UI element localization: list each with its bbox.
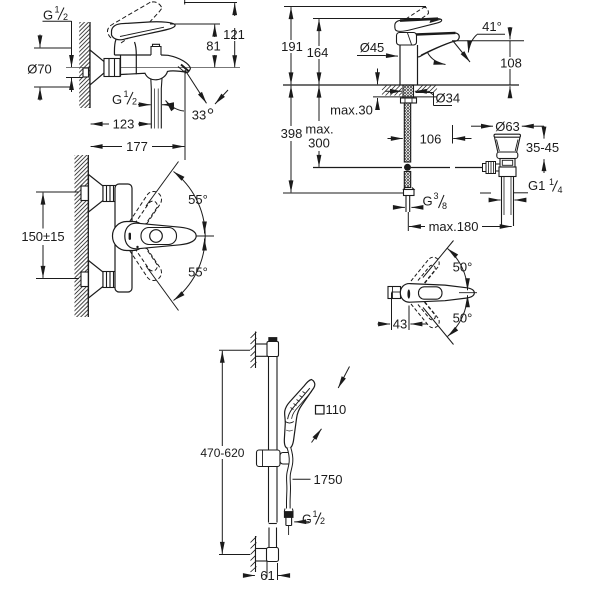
shield mark B <box>129 234 131 239</box>
svg-text:41°: 41° <box>482 19 502 34</box>
svg-text:G: G <box>43 8 53 23</box>
svg-text:61: 61 <box>260 568 274 583</box>
dim 470-620 <box>219 350 250 554</box>
dim max300 <box>318 86 320 167</box>
svg-text:123: 123 <box>113 117 135 132</box>
svg-text:164: 164 <box>307 45 329 60</box>
wall E bottom <box>251 536 257 572</box>
dim 106 <box>388 125 472 144</box>
dashed raised lever C <box>401 7 429 29</box>
svg-text:3: 3 <box>434 191 439 201</box>
svg-text:Ø63: Ø63 <box>495 119 520 134</box>
escutcheon A <box>90 50 106 85</box>
svg-text:177: 177 <box>126 139 148 154</box>
diverter knob A <box>151 44 161 55</box>
angle 33 annotation <box>166 70 229 111</box>
slider holder E <box>257 450 293 467</box>
dim Ø34 <box>385 91 452 105</box>
centerline through faucet A <box>66 67 240 69</box>
dim G1/2 E <box>302 509 325 526</box>
dim 164 <box>318 19 320 84</box>
lever D <box>400 284 474 303</box>
svg-text:110: 110 <box>326 402 347 417</box>
inlet pipe A <box>66 77 83 79</box>
hose fitting E <box>284 509 293 536</box>
lever raised (dashed) A <box>107 1 162 43</box>
svg-text:Ø70: Ø70 <box>27 61 52 76</box>
svg-text:2: 2 <box>320 516 325 526</box>
svg-text:1: 1 <box>55 5 60 15</box>
deck hatching <box>382 86 437 96</box>
cartridge dome A <box>114 40 136 56</box>
svg-text:Ø34: Ø34 <box>436 90 461 105</box>
dim G3/8 <box>423 191 448 211</box>
dim 43 <box>378 293 428 331</box>
rail top cap E <box>269 338 277 342</box>
lever inner plate B <box>141 228 177 245</box>
dim 81 <box>170 24 220 67</box>
wall fitting square A <box>83 68 89 77</box>
hand shower E <box>284 380 314 449</box>
ref line lever top <box>313 18 420 20</box>
dim Ø70 <box>34 35 71 101</box>
shower outlet + hose A <box>151 79 162 129</box>
swing arc D 50 <box>423 241 468 345</box>
svg-text:2: 2 <box>63 12 68 22</box>
shower rail E <box>269 342 278 549</box>
dim 35-45 <box>543 126 545 173</box>
nut B bottom <box>103 272 117 288</box>
svg-text:55°: 55° <box>188 265 208 280</box>
svg-text:150±15: 150±15 <box>21 229 64 244</box>
svg-text:191: 191 <box>281 39 303 54</box>
svg-text:55°: 55° <box>188 192 208 207</box>
spout C <box>416 33 459 57</box>
svg-text:G: G <box>302 512 312 526</box>
dim 108 <box>509 27 511 98</box>
svg-text:121: 121 <box>223 27 245 42</box>
escutcheon B bottom <box>89 261 104 299</box>
rod joint <box>483 162 501 174</box>
dim max.180 <box>408 212 511 231</box>
dim max.30 <box>377 69 379 109</box>
svg-text:398: 398 <box>281 126 303 141</box>
pop-up upper body <box>500 159 515 168</box>
body B <box>115 184 132 292</box>
small dot B <box>136 246 138 248</box>
dim G1/2 (A lower, hose) <box>112 89 137 107</box>
svg-text:106: 106 <box>420 132 442 147</box>
faucet body + spout A <box>115 55 191 80</box>
dim Ø63 <box>471 125 544 127</box>
nut B top <box>103 186 117 202</box>
label square 110 <box>316 406 325 415</box>
bottom bracket E <box>256 548 279 578</box>
svg-text:Ø45: Ø45 <box>360 40 385 55</box>
pop-up lower body <box>499 167 516 177</box>
svg-text:300: 300 <box>308 136 330 151</box>
hose end fitting C <box>404 188 415 213</box>
svg-text:G: G <box>112 92 122 107</box>
svg-text:50°: 50° <box>453 260 473 275</box>
lever C <box>395 18 442 31</box>
svg-text:1750: 1750 <box>314 472 343 487</box>
lever mark D <box>407 289 410 298</box>
tailpipe <box>502 177 514 227</box>
dim square110 leaders <box>312 367 350 443</box>
svg-text:G: G <box>423 193 433 208</box>
lever B <box>125 223 196 249</box>
ref line hose end <box>283 192 404 194</box>
extension line spout tip A <box>184 70 186 160</box>
ref line top (lever raised) <box>284 6 426 8</box>
svg-text:33: 33 <box>192 108 206 123</box>
dim 1750 <box>293 478 311 480</box>
cartridge dome C <box>397 33 417 46</box>
lever inner plate D <box>419 287 443 299</box>
svg-text:4: 4 <box>558 185 563 195</box>
handle swing arc B 55 <box>146 162 205 311</box>
lever A <box>112 22 176 40</box>
dim 398 <box>290 86 292 193</box>
wall E top <box>251 332 257 369</box>
body column C <box>400 45 418 85</box>
svg-text:8: 8 <box>442 201 447 211</box>
dashed lever up B <box>126 192 161 236</box>
svg-text:1: 1 <box>549 177 554 187</box>
svg-text:43: 43 <box>393 317 407 332</box>
rod junction dot C <box>404 164 411 171</box>
dim 61 <box>244 563 290 580</box>
centerline marks D <box>459 282 477 304</box>
dashed lever down B <box>126 236 161 280</box>
svg-text:max.180: max.180 <box>429 219 479 234</box>
threaded shank C <box>401 85 417 103</box>
mount bracket D <box>388 287 401 299</box>
svg-text:470-620: 470-620 <box>200 446 244 460</box>
svg-text:G1: G1 <box>528 178 545 193</box>
escutcheon B top <box>89 175 104 213</box>
svg-text:2: 2 <box>132 96 137 106</box>
dim 177 <box>91 146 185 148</box>
svg-text:max.30: max.30 <box>330 103 373 118</box>
dashed lever down D <box>411 297 439 328</box>
dim 123 <box>91 123 151 125</box>
dim G1 1/4 <box>528 177 563 195</box>
basin deck line <box>283 84 519 86</box>
pop-up flange <box>497 152 518 159</box>
svg-text:108: 108 <box>500 56 522 71</box>
dashed lever up D <box>411 257 439 288</box>
connection nut A <box>104 59 120 77</box>
svg-text:35-45: 35-45 <box>526 140 559 155</box>
pop-up cup <box>494 134 521 152</box>
svg-text:max.: max. <box>305 122 333 137</box>
svg-text:1: 1 <box>124 89 129 99</box>
svg-text:50°: 50° <box>453 311 473 326</box>
pop-up rod line <box>313 167 486 169</box>
dim 121 <box>184 0 237 67</box>
shower hose E <box>288 448 291 509</box>
lever ring B <box>150 230 163 243</box>
wall B hatched <box>75 155 89 317</box>
svg-text:81: 81 <box>206 39 220 54</box>
svg-text:1: 1 <box>313 509 318 519</box>
dim G1/2 (A upper-left) <box>71 21 73 92</box>
dim 150+-15 <box>36 192 79 279</box>
deck bottom lines <box>373 96 437 98</box>
centerline marks B <box>196 225 214 247</box>
top bracket E <box>256 342 279 357</box>
wall squares B <box>81 186 88 201</box>
dim 191 <box>290 7 292 84</box>
handle shield B <box>113 222 148 251</box>
